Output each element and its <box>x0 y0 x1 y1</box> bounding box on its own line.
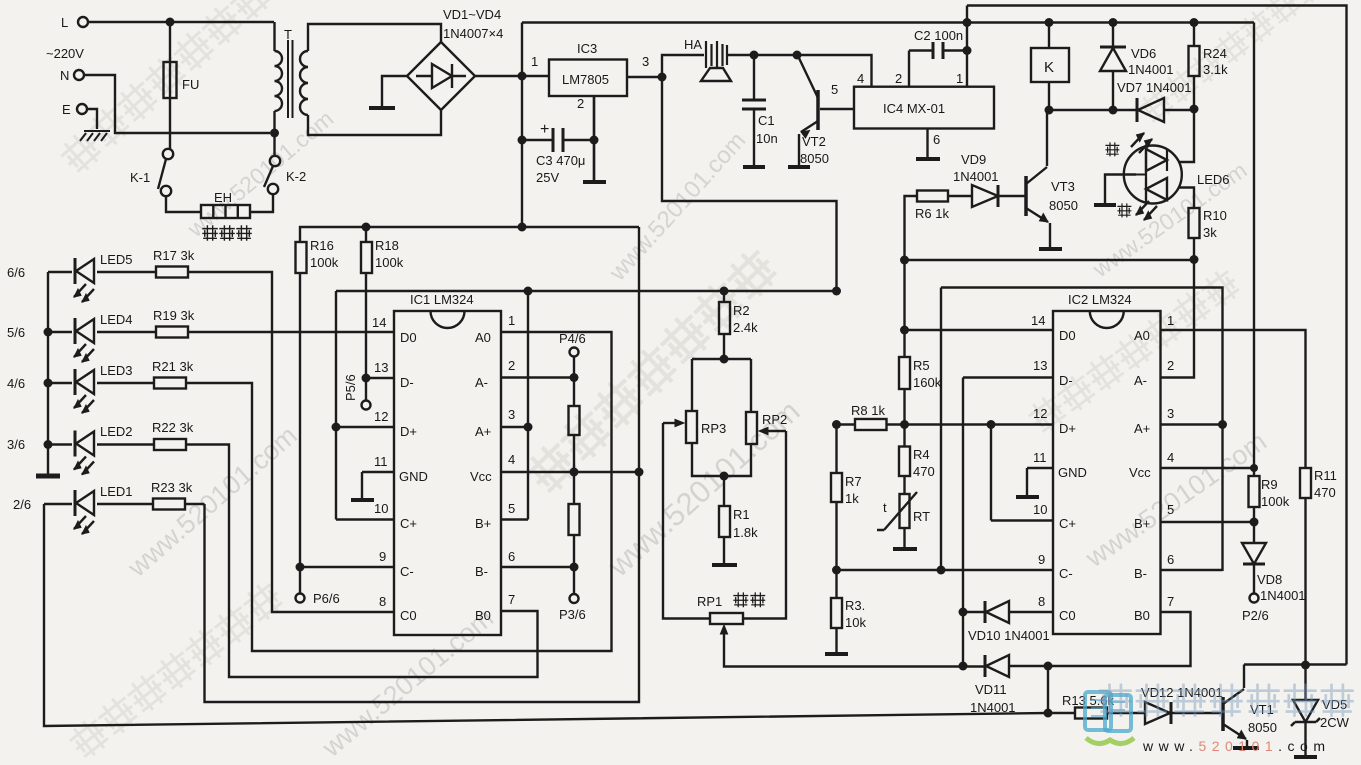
svg-text:www.520101.com: www.520101.com <box>1142 738 1331 754</box>
node Vcc IC2 <box>1250 464 1258 472</box>
terminal P3/6 <box>570 594 579 603</box>
svg-text:B0: B0 <box>475 608 491 623</box>
wire net B bottom right <box>1244 663 1347 665</box>
svg-text:VT2: VT2 <box>802 134 826 149</box>
wire IC2 pin12 D+ <box>837 423 1054 425</box>
svg-text:4/6: 4/6 <box>7 376 25 391</box>
ground RT <box>893 547 917 551</box>
node R1 top <box>720 472 729 481</box>
wire E stub <box>87 109 97 129</box>
resistor R5 <box>899 357 910 389</box>
svg-text:2: 2 <box>577 96 584 111</box>
terminal E <box>77 104 87 114</box>
svg-text:C+: C+ <box>1059 516 1076 531</box>
label green <box>1106 143 1119 156</box>
svg-text:R21 3k: R21 3k <box>152 359 194 374</box>
node C- R7R3 <box>832 566 841 575</box>
node IC3 pin3 <box>658 73 667 82</box>
svg-text:160k: 160k <box>913 375 942 390</box>
svg-text:R17 3k: R17 3k <box>153 248 195 263</box>
svg-text:Vcc: Vcc <box>470 469 492 484</box>
resistor R13 <box>1075 708 1107 719</box>
wire transformer primary top <box>273 22 275 51</box>
pot RP3 <box>686 411 697 443</box>
capacitor C1 <box>742 100 766 109</box>
svg-text:470: 470 <box>913 464 935 479</box>
wire C3 branch <box>522 96 594 180</box>
svg-text:8: 8 <box>379 594 386 609</box>
node LED4 rail <box>44 328 53 337</box>
svg-text:B+: B+ <box>475 516 491 531</box>
wire +9V vertical at x=522 <box>521 23 523 228</box>
wire R10 bottom <box>1193 238 1195 260</box>
wire VT3 collector up <box>1046 110 1048 166</box>
svg-text:LM7805: LM7805 <box>562 72 609 87</box>
wire IC1 pin13 D- <box>366 377 394 379</box>
node D0 R5 <box>900 326 909 335</box>
node x967 rail <box>963 18 972 27</box>
wire VD5 chain <box>1304 665 1306 756</box>
svg-text:B+: B+ <box>1134 516 1150 531</box>
svg-text:E: E <box>62 102 71 117</box>
svg-text:2CW: 2CW <box>1320 715 1350 730</box>
svg-text:3/6: 3/6 <box>7 437 25 452</box>
wire relay K vertical <box>1048 23 1050 111</box>
svg-text:14: 14 <box>372 315 386 330</box>
node LED2 rail <box>44 440 53 449</box>
svg-text:7: 7 <box>1167 594 1174 609</box>
wire IC3 out pin3 <box>627 76 662 78</box>
wire VD9 to VT3 base <box>999 195 1026 197</box>
svg-text:VD6: VD6 <box>1131 46 1156 61</box>
node bridge out <box>518 72 527 81</box>
switch K-2 <box>270 156 280 166</box>
svg-text:N: N <box>60 68 69 83</box>
wire R18 vertical <box>365 227 367 400</box>
IC4 MX-01 box <box>854 87 994 129</box>
wire x=639 down to Vcc IC1 and line4 <box>205 227 640 702</box>
wire VD10 line pin8 <box>963 611 1053 613</box>
svg-text:6/6: 6/6 <box>7 265 25 280</box>
node B+ R9 <box>1250 518 1259 527</box>
resistor R24 <box>1189 46 1200 76</box>
transistor VT2 <box>816 90 820 130</box>
svg-text:D+: D+ <box>1059 421 1076 436</box>
capacitor C3 <box>553 128 563 152</box>
svg-text:FU: FU <box>182 77 199 92</box>
wire secondary top to bridge <box>308 24 441 51</box>
svg-text:470: 470 <box>1314 485 1336 500</box>
node VD10 left <box>959 608 968 617</box>
terminal P4/6 <box>570 348 579 357</box>
svg-text:~220V: ~220V <box>46 46 84 61</box>
svg-text:Vcc: Vcc <box>1129 465 1151 480</box>
svg-text:8050: 8050 <box>800 151 829 166</box>
svg-text:1N4001: 1N4001 <box>1260 588 1306 603</box>
node rail227 mid <box>518 223 527 232</box>
wire rail 290 left segment <box>336 290 837 292</box>
node C1 top <box>750 51 759 60</box>
pot RP1 <box>710 613 743 624</box>
svg-text:RT: RT <box>913 509 930 524</box>
wire R3 chain <box>835 570 837 653</box>
svg-text:www.520101.com: www.520101.com <box>1079 426 1272 573</box>
resistor R10 <box>1189 208 1200 238</box>
svg-text:VD12 1N4001: VD12 1N4001 <box>1141 685 1223 700</box>
wire N <box>84 75 270 133</box>
wire IC3 pin2 ground <box>593 96 595 180</box>
node C2 right <box>963 46 972 55</box>
svg-text:4: 4 <box>508 452 515 467</box>
svg-text:5: 5 <box>1167 502 1174 517</box>
svg-text:1: 1 <box>956 71 963 86</box>
node rail290 IC1 <box>524 287 533 296</box>
ground C1 <box>743 165 765 169</box>
wire RP3 wiper <box>663 423 710 619</box>
svg-text:R5: R5 <box>913 358 930 373</box>
svg-text:5/6: 5/6 <box>7 325 25 340</box>
resistor R16 <box>296 242 307 273</box>
svg-text:A+: A+ <box>1134 421 1150 436</box>
svg-text:10: 10 <box>1033 502 1047 517</box>
svg-text:C0: C0 <box>1059 608 1076 623</box>
node LED3 rail <box>44 379 53 388</box>
wire IC1 pin5 B+ <box>501 518 528 520</box>
ground IC4 pin6 <box>916 157 940 161</box>
wire RP3 RP2 top tee <box>692 359 751 412</box>
node D+ left <box>832 420 841 429</box>
svg-text:VD11: VD11 <box>975 682 1007 697</box>
svg-text:12: 12 <box>374 409 388 424</box>
LED1 <box>74 490 94 534</box>
diode VD12 <box>1145 702 1170 724</box>
wire x=967 vertical <box>966 6 968 88</box>
wire K-1 to EH <box>166 196 201 212</box>
svg-text:8050: 8050 <box>1049 198 1078 213</box>
svg-text:D0: D0 <box>1059 328 1076 343</box>
svg-text:RP2: RP2 <box>762 412 787 427</box>
ground C3 <box>583 180 606 184</box>
ground R1 <box>712 563 737 567</box>
node C- R16 <box>296 563 305 572</box>
svg-text:C-: C- <box>400 564 414 579</box>
svg-text:A0: A0 <box>475 330 491 345</box>
svg-text:A-: A- <box>475 375 488 390</box>
resistor R18 <box>361 242 372 273</box>
svg-text:www.520101.com: www.520101.com <box>604 127 751 287</box>
svg-text:8: 8 <box>1038 594 1045 609</box>
resistor R19 <box>156 327 188 338</box>
wire VD12 to VT1 <box>1172 712 1221 714</box>
wire VT2 base to IC4 pin5 <box>820 108 854 110</box>
diode VD7 <box>1136 98 1139 122</box>
wire VD11 out to B0 <box>1010 612 1191 666</box>
label heater <box>203 226 251 240</box>
wire IC2 pin4 Vcc rail right <box>1161 23 1255 469</box>
node VD6 bottom <box>1109 106 1118 115</box>
svg-text:GND: GND <box>1058 465 1087 480</box>
svg-text:9: 9 <box>379 549 386 564</box>
svg-text:VD7 1N4001: VD7 1N4001 <box>1117 80 1191 95</box>
wire VT3 emitter ground <box>1049 223 1051 248</box>
svg-text:IC4 MX-01: IC4 MX-01 <box>883 101 945 116</box>
buzzer HA <box>706 41 727 68</box>
label red <box>1118 204 1131 217</box>
wire line y=260 <box>905 259 1195 261</box>
wire HA line <box>662 55 872 87</box>
wire R13 to VD12 <box>1107 712 1145 714</box>
svg-text:GND: GND <box>399 469 428 484</box>
svg-text:1: 1 <box>508 313 515 328</box>
svg-text:100k: 100k <box>375 255 404 270</box>
resistor R6 <box>917 191 948 202</box>
svg-text:1N4001: 1N4001 <box>1128 62 1174 77</box>
svg-text:R11: R11 <box>1314 468 1337 483</box>
svg-text:5: 5 <box>831 82 838 97</box>
svg-text:14: 14 <box>1031 313 1045 328</box>
resistor P4 chain lower <box>569 504 580 535</box>
capacitor C2 <box>933 42 943 59</box>
wire IC2 pin1 A0 to R11 <box>1161 330 1306 665</box>
svg-text:VD9: VD9 <box>961 152 986 167</box>
wire RP pots bottom <box>692 443 751 476</box>
svg-text:2/6: 2/6 <box>13 497 31 512</box>
svg-text:LED1: LED1 <box>100 484 133 499</box>
svg-text:6: 6 <box>1167 552 1174 567</box>
wire LED1 left long bottom <box>44 504 1048 726</box>
node R18 D- <box>362 374 371 383</box>
wire R9 <box>1253 468 1255 522</box>
svg-text:t: t <box>883 500 887 515</box>
svg-text:R18: R18 <box>375 238 399 253</box>
wire IC2 pin9 C- <box>837 569 1054 571</box>
node C- x941 <box>937 566 946 575</box>
svg-text:LED5: LED5 <box>100 252 133 267</box>
resistor R11 <box>1300 468 1311 498</box>
wire bridge left to ground <box>382 76 407 107</box>
wire C1 branch <box>753 55 755 166</box>
wire IC1 pin2 A- <box>501 376 574 378</box>
ground IC2 GND <box>1016 495 1039 499</box>
diode VD6 <box>1100 46 1126 49</box>
svg-text:2: 2 <box>1167 358 1174 373</box>
svg-text:3: 3 <box>642 54 649 69</box>
LED2 <box>74 431 94 475</box>
resistor R2 <box>719 302 730 334</box>
blue watermark text bottom right <box>1100 685 1352 715</box>
node Vcc P4 <box>570 468 579 477</box>
wire R16 vertical <box>299 273 301 567</box>
svg-text:R1: R1 <box>733 507 750 522</box>
ground VT1 <box>1233 746 1259 750</box>
ground VT3 <box>1039 247 1062 251</box>
wire IC1 frame left <box>335 291 337 520</box>
node R11 bottom <box>1301 661 1310 670</box>
wire IC1 pin14 D0 row LED4 <box>48 331 394 333</box>
wire VD6 verticals <box>1112 23 1114 111</box>
resistor R22 <box>154 439 186 450</box>
svg-text:3: 3 <box>1167 406 1174 421</box>
wire VT2 emitter ground <box>798 134 800 166</box>
svg-text:HA: HA <box>684 37 702 52</box>
wire C2 <box>909 49 967 51</box>
wire LED6 right bottom to R10 <box>1179 188 1194 209</box>
wire R1 <box>723 476 725 564</box>
wire D- vertical x=963 <box>962 378 964 667</box>
LED3 <box>74 369 94 413</box>
svg-text:1: 1 <box>1167 313 1174 328</box>
node Vcc x639 <box>635 468 644 477</box>
svg-text:C1: C1 <box>758 113 775 128</box>
svg-text:10k: 10k <box>845 615 866 630</box>
wire LED6 left to ground <box>1105 175 1136 205</box>
svg-text:100k: 100k <box>1261 494 1290 509</box>
svg-text:2.4k: 2.4k <box>733 320 758 335</box>
svg-text:A0: A0 <box>1134 328 1150 343</box>
wire RP2 wiper <box>743 431 786 619</box>
resistor P4 chain upper <box>569 406 580 435</box>
ground R3 <box>825 652 848 656</box>
resistor R3 <box>831 598 842 628</box>
wire IC1 pin12 D+ <box>336 426 394 428</box>
wire VD11 junction down <box>1048 666 1075 713</box>
wire IC4 pin4 label4 <box>908 51 910 88</box>
svg-text:K-2: K-2 <box>286 169 306 184</box>
heater EH box <box>201 205 250 218</box>
svg-text:3: 3 <box>508 407 515 422</box>
svg-text:www.520101.com: www.520101.com <box>316 603 499 764</box>
wire LED1 row to Vcc route <box>44 503 205 505</box>
svg-text:IC2 LM324: IC2 LM324 <box>1068 292 1132 307</box>
svg-text:25V: 25V <box>536 170 559 185</box>
wire K-2 to EH <box>250 194 273 212</box>
svg-text:R9: R9 <box>1261 477 1278 492</box>
wire LED6 right top <box>1179 109 1194 162</box>
svg-text:+: + <box>540 121 549 138</box>
svg-text:B-: B- <box>1134 566 1147 581</box>
node C3 left <box>518 136 527 145</box>
wire bridge out to IC3 <box>475 75 549 77</box>
svg-text:11: 11 <box>1033 450 1047 465</box>
svg-text:5: 5 <box>508 501 515 516</box>
svg-text:C-: C- <box>1059 566 1073 581</box>
svg-text:R24: R24 <box>1203 46 1227 61</box>
wire IC2 pin14 D0 <box>905 329 1054 331</box>
ground LED rail <box>36 474 60 479</box>
wire x=941 down to C- <box>940 288 942 571</box>
node R24 bottom <box>1190 105 1199 114</box>
node rail290 R2 <box>720 287 729 296</box>
thermistor RT <box>900 494 910 528</box>
LED5 <box>74 258 94 302</box>
svg-text:LED4: LED4 <box>100 312 133 327</box>
svg-text:R2: R2 <box>733 303 750 318</box>
svg-text:1: 1 <box>531 54 538 69</box>
svg-text:R10: R10 <box>1203 208 1227 223</box>
svg-text:R8 1k: R8 1k <box>851 403 885 418</box>
node R10 bottom <box>1190 255 1199 264</box>
svg-text:P5/6: P5/6 <box>343 374 358 401</box>
svg-text:10n: 10n <box>756 131 778 146</box>
node FU-L <box>166 18 175 27</box>
wire IC2 pin6 B- <box>1161 569 1223 571</box>
svg-text:A-: A- <box>1134 373 1147 388</box>
resistor R23 <box>153 499 185 510</box>
wire VD8 chain <box>1253 522 1255 593</box>
svg-text:B0: B0 <box>1134 608 1150 623</box>
svg-text:8050: 8050 <box>1248 720 1277 735</box>
svg-text:LED3: LED3 <box>100 363 133 378</box>
resistor R8 <box>855 419 887 430</box>
svg-text:IC3: IC3 <box>577 41 597 56</box>
wire top rail y=5.5 <box>967 6 1347 665</box>
ground LED6 <box>1094 203 1116 207</box>
svg-text:T: T <box>284 27 292 42</box>
svg-text:2: 2 <box>508 358 515 373</box>
node VT2 collector <box>793 51 802 60</box>
wire IC1 pin11 GND <box>362 472 394 499</box>
wire R5 chain <box>903 260 905 447</box>
svg-text:6: 6 <box>933 132 940 147</box>
svg-text:D+: D+ <box>400 424 417 439</box>
wire IC1 frame right <box>527 291 529 520</box>
wire R4 RT chain <box>903 476 905 548</box>
transformer T secondary coil <box>300 51 308 115</box>
svg-text:P3/6: P3/6 <box>559 607 586 622</box>
svg-text:C2 100n: C2 100n <box>914 28 963 43</box>
wire IC2 pin13 D- <box>963 376 1053 378</box>
wire pin3 down-branch <box>662 77 837 291</box>
node D+ R5R4 <box>900 420 909 429</box>
wire LED3 row to A0 route <box>48 332 612 651</box>
IC2 box <box>1053 311 1161 634</box>
node VD6 top <box>1109 18 1118 27</box>
svg-text:9: 9 <box>1038 552 1045 567</box>
terminal L <box>78 17 88 27</box>
wire IC1 pin6 B- <box>501 566 574 568</box>
wire IC2 pin10 C+ <box>991 425 1053 521</box>
svg-text:R4: R4 <box>913 447 930 462</box>
svg-text:3k: 3k <box>1203 225 1217 240</box>
ground bridge <box>369 106 395 110</box>
LED4 <box>74 318 94 362</box>
svg-text:R7: R7 <box>845 474 862 489</box>
fuse FU <box>164 62 177 98</box>
node primary-N-K2 <box>270 129 279 138</box>
wire R2 <box>723 291 725 359</box>
node R6 corner <box>900 256 909 265</box>
svg-text:1k: 1k <box>845 491 859 506</box>
node R13 left <box>1044 709 1053 718</box>
svg-text:P2/6: P2/6 <box>1242 608 1269 623</box>
LED6 dual <box>1124 146 1182 204</box>
node VD11 left <box>959 662 968 671</box>
terminal N <box>74 70 84 80</box>
svg-text:2: 2 <box>895 71 902 86</box>
ground VD5 <box>1294 755 1317 759</box>
svg-text:3.1k: 3.1k <box>1203 62 1228 77</box>
IC pin labels <box>372 313 1174 623</box>
svg-text:VT3: VT3 <box>1051 179 1075 194</box>
node D+ C+ tie <box>987 420 996 429</box>
resistor R17 <box>156 267 188 278</box>
svg-text:K-1: K-1 <box>130 170 150 185</box>
svg-text:C+: C+ <box>400 516 417 531</box>
ground IC1 GND <box>351 498 374 502</box>
wire R6 left corner <box>905 196 918 260</box>
node K top <box>1045 18 1054 27</box>
svg-text:D0: D0 <box>400 330 417 345</box>
